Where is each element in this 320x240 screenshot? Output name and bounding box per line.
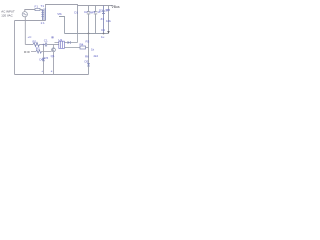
wire output bus	[65, 33, 109, 35]
label AC INPUT 120 VAC	[1, 10, 15, 18]
svg-text:Q1: Q1	[51, 54, 55, 58]
svg-text:Z1: Z1	[101, 17, 105, 21]
diode D4 vertical left	[43, 45, 45, 75]
svg-text:Vfb: Vfb	[57, 12, 62, 16]
wire diode up to bus	[77, 34, 79, 43]
svg-text:R3: R3	[86, 40, 90, 44]
wire neutral to resistor R1	[25, 44, 33, 46]
transistor Q1	[52, 48, 56, 52]
svg-text:F1: F1	[35, 4, 39, 8]
svg-text:R1: R1	[33, 40, 37, 44]
wire bias row to transistor base	[42, 51, 52, 53]
svg-text:D4: D4	[39, 57, 43, 61]
svg-text:C5: C5	[44, 56, 48, 60]
ground rail wire	[15, 74, 89, 76]
node junction dot B	[88, 33, 90, 35]
wire feedback stub	[59, 17, 65, 34]
transformer winding rungs	[41, 11, 44, 17]
AC source V1	[22, 12, 27, 17]
IC U1 opto	[59, 41, 65, 48]
node label a	[51, 36, 53, 38]
svg-text:C2: C2	[84, 10, 88, 14]
transformer T1	[43, 8, 46, 21]
node A	[43, 44, 45, 46]
capacitor C1 series	[45, 43, 46, 47]
svg-text:D2: D2	[99, 9, 103, 13]
node junction dot C	[103, 33, 105, 35]
svg-text:10k: 10k	[106, 19, 111, 23]
wire neutral: source bottom down	[24, 17, 26, 45]
svg-text:D5: D5	[85, 60, 89, 64]
diode D5 bottom right	[87, 63, 90, 66]
wire bias row	[31, 51, 36, 53]
wire neutral horizontal to transformer	[15, 20, 46, 22]
svg-text:D1: D1	[74, 11, 78, 15]
wire fuse to transformer primary	[40, 9, 43, 11]
svg-text:C4: C4	[101, 28, 105, 32]
zener diode D2	[102, 6, 105, 34]
resistor R2	[36, 50, 41, 53]
svg-text:C3: C3	[92, 10, 96, 14]
wire resistor to node	[40, 44, 46, 46]
wire secondary top to VBus rail	[46, 5, 114, 8]
svg-text:R5: R5	[106, 8, 110, 12]
diode D3	[64, 42, 67, 44]
svg-text:1:1: 1:1	[41, 21, 46, 25]
output arrow	[107, 31, 109, 34]
svg-text:U1: U1	[59, 38, 63, 42]
fuse F1	[35, 4, 41, 10]
capacitor C3	[94, 6, 97, 34]
capacitor C2	[87, 6, 90, 34]
svg-text:2k2: 2k2	[94, 54, 99, 58]
wire source top to fuse	[25, 10, 35, 12]
svg-text:R6: R6	[85, 55, 89, 59]
svg-text:1k: 1k	[91, 48, 95, 52]
svg-text:1u: 1u	[101, 35, 105, 39]
wire rectifier branch	[77, 6, 79, 34]
svg-text:+: +	[41, 69, 43, 73]
svg-text:C1: C1	[44, 38, 48, 42]
svg-text:T1: T1	[41, 4, 45, 8]
resistor R1	[33, 43, 40, 47]
wire node to opto	[47, 44, 59, 46]
svg-text:R2: R2	[36, 47, 40, 51]
label minus terminal	[24, 51, 30, 53]
wire emitter to ground rail	[53, 52, 55, 75]
svg-text:R4: R4	[80, 43, 84, 47]
wire opto upper lead	[55, 42, 59, 44]
wire collector drop	[53, 45, 55, 48]
resistor R3 vertical	[88, 34, 90, 75]
svg-text:VBus: VBus	[112, 5, 120, 9]
svg-text:120 VAC: 120 VAC	[1, 13, 12, 17]
wire neutral left drop	[14, 21, 16, 75]
resistor R4	[64, 47, 80, 49]
resistor R5 output	[108, 6, 110, 33]
